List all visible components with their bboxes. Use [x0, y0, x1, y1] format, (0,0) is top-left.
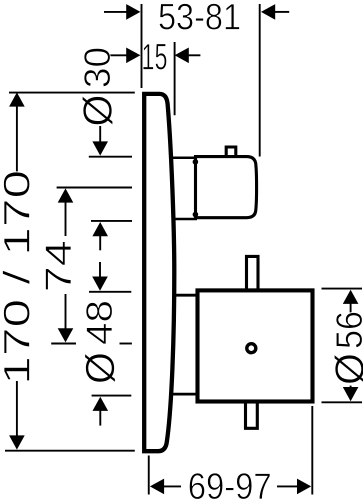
svg-text:56: 56 — [329, 311, 363, 349]
svg-text:15: 15 — [142, 36, 168, 77]
svg-text:53-81: 53-81 — [158, 0, 241, 37]
svg-text:Ø: Ø — [327, 353, 363, 385]
svg-text:74: 74 — [38, 240, 79, 292]
svg-text:30: 30 — [77, 47, 118, 88]
svg-text:Ø: Ø — [75, 95, 121, 127]
svg-text:Ø: Ø — [77, 352, 123, 384]
svg-text:170 / 170: 170 / 170 — [0, 170, 38, 385]
svg-text:48: 48 — [79, 300, 120, 345]
svg-text:69-97: 69-97 — [188, 466, 272, 500]
